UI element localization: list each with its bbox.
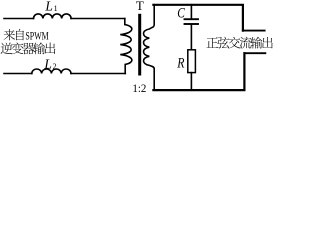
svg-text:1: 1 (54, 4, 58, 13)
inductor L2 (32, 69, 71, 74)
wire: input bottom lead (4, 73, 32, 75)
svg-text:T: T (136, 0, 144, 13)
text: 来自SPWM (from SPWM) (4, 29, 15, 40)
svg-text:SPWM: SPWM (25, 31, 48, 43)
wire: top lead to transformer (71, 18, 125, 20)
wire: output terminal top (243, 30, 265, 32)
text: 逆变器输出 (inverter output) (1, 43, 13, 54)
inductor L1 (34, 14, 72, 19)
wire: input top lead (4, 18, 34, 20)
wire: R lower stem (190, 73, 192, 90)
wire: C branch upper stem (190, 5, 192, 19)
svg-text:2: 2 (53, 62, 57, 71)
svg-text:L: L (44, 0, 53, 13)
text: 正弦交流输出 (sine AC output) (206, 37, 218, 48)
wire: C to R stem (190, 25, 192, 50)
wire: secondary top to output (153, 5, 243, 31)
wire: bottom lead to transformer (71, 73, 125, 75)
svg-text:L: L (43, 56, 52, 71)
transformer core (138, 15, 141, 74)
transformer T secondary winding (144, 5, 155, 90)
transformer T primary winding (120, 19, 132, 74)
wire: output terminal bottom (244, 52, 265, 54)
wire: secondary bottom to output (153, 53, 244, 90)
svg-text:C: C (177, 6, 185, 22)
resistor R (188, 50, 196, 73)
svg-text:1:2: 1:2 (132, 81, 146, 94)
svg-text:R: R (176, 56, 184, 72)
capacitor C (185, 19, 199, 24)
